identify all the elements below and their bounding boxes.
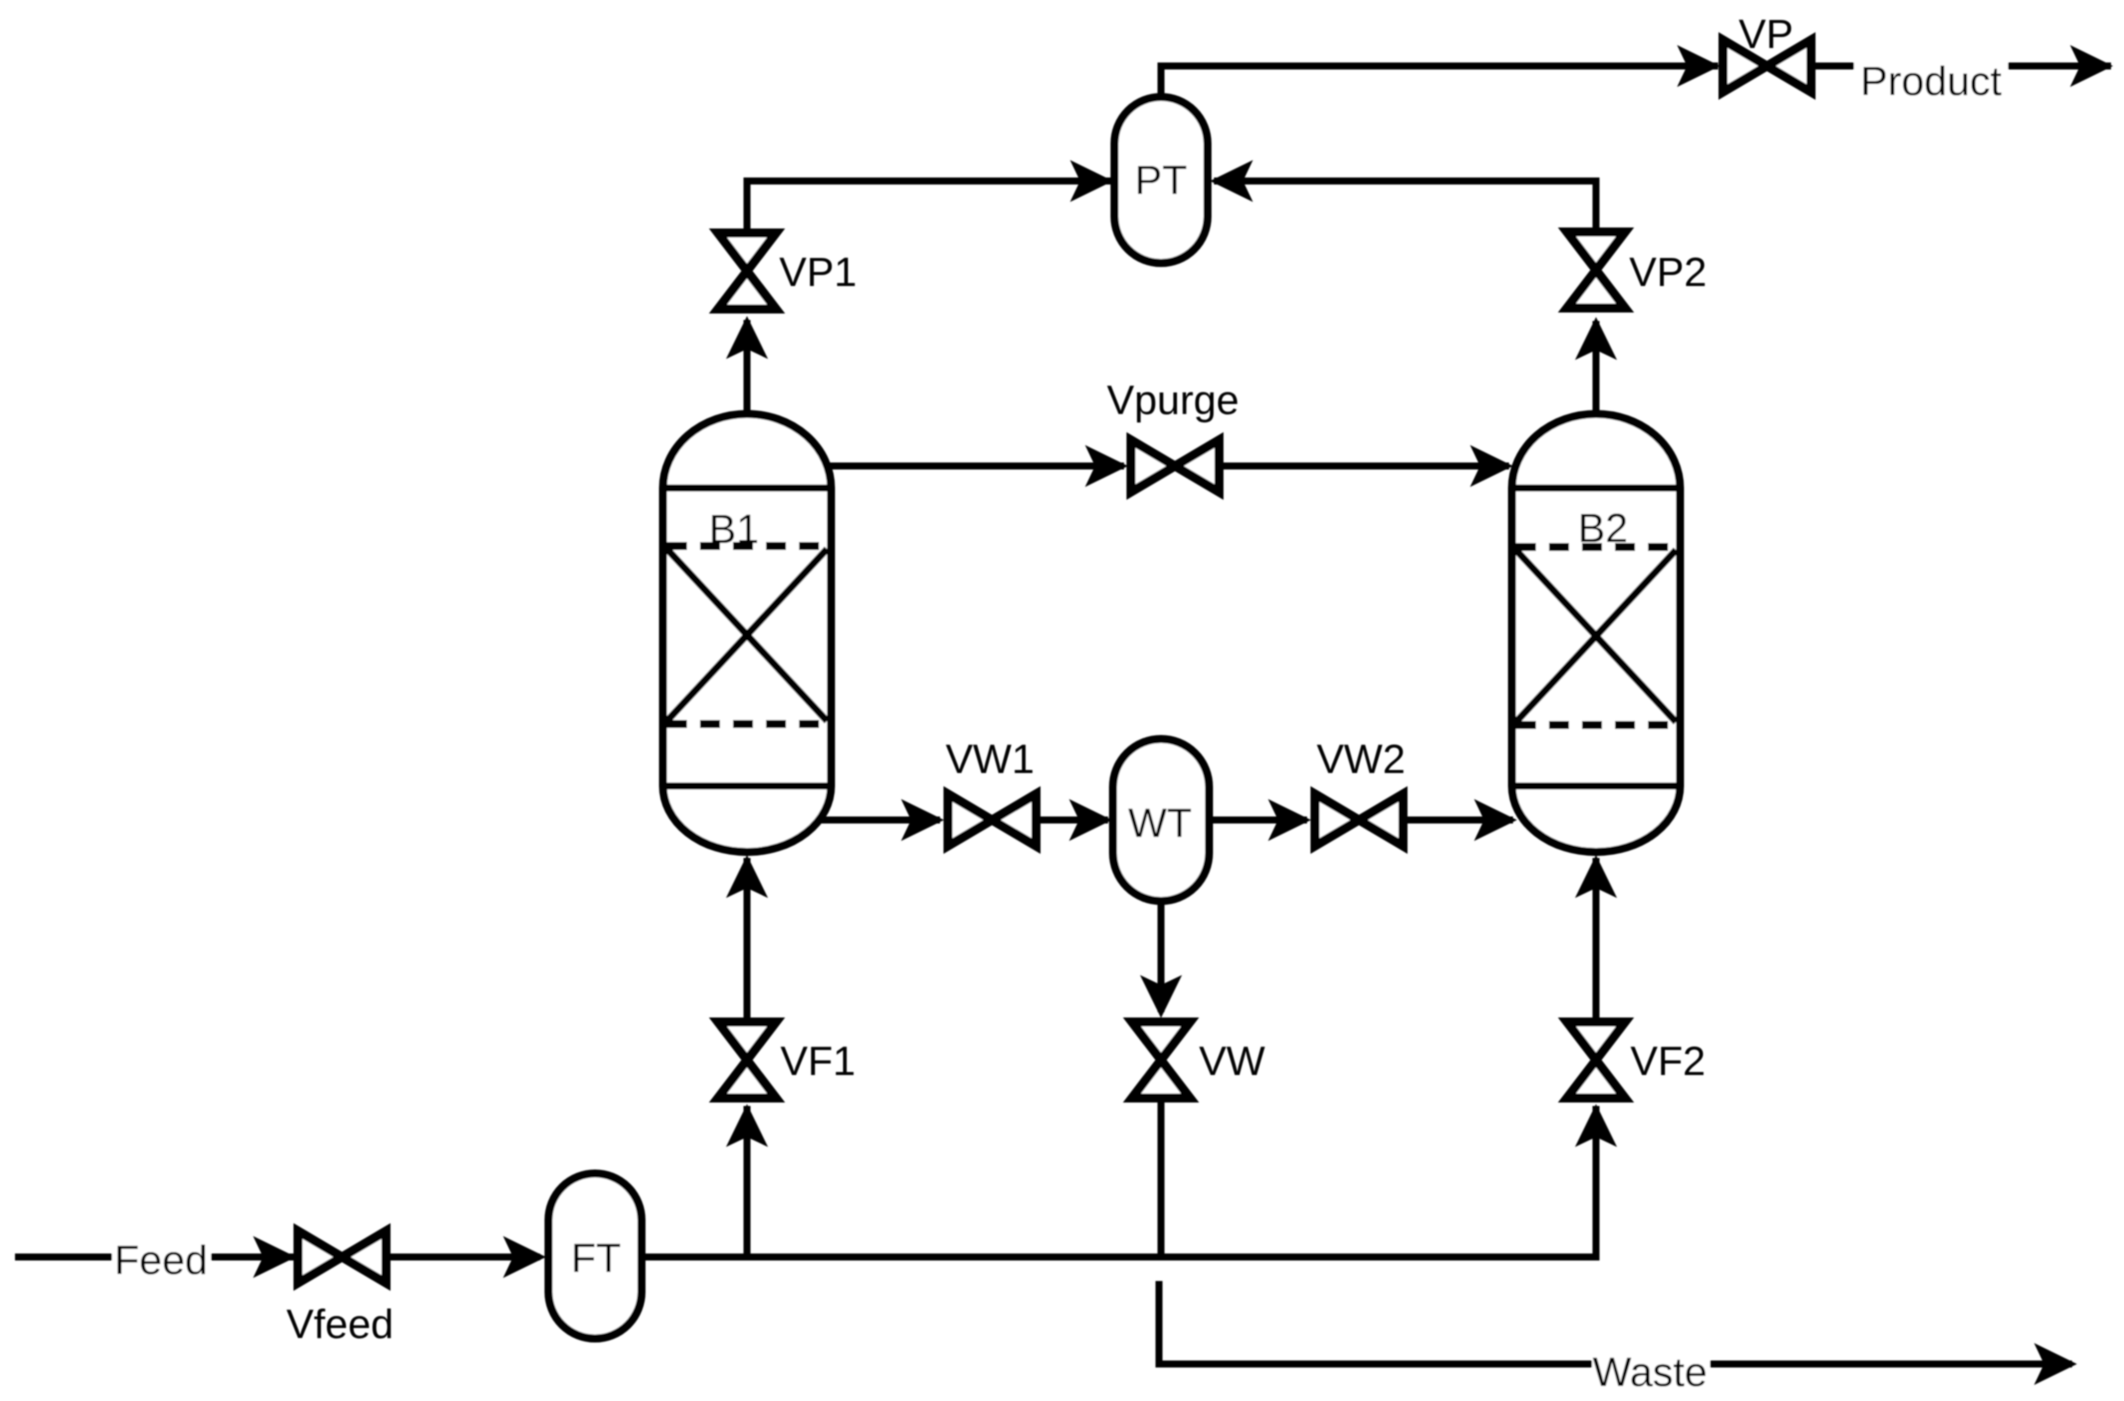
wire FT to feed elbow to VF2 xyxy=(642,1106,1597,1257)
svg-text:B2: B2 xyxy=(1578,505,1628,551)
wire VF2 to B2 xyxy=(1593,858,1600,1022)
arrow into B2 bottom-left xyxy=(1474,799,1517,841)
wire B1 top to VP1 xyxy=(744,320,751,414)
wire Vpurge to B2 xyxy=(1219,463,1509,470)
vessel B1 xyxy=(663,414,831,852)
arrow into WT xyxy=(1069,799,1112,841)
node: Waste label xyxy=(1592,1349,1710,1393)
svg-text:VP1: VP1 xyxy=(779,249,857,295)
tank FT xyxy=(549,1174,642,1339)
arrow Waste outlet xyxy=(2034,1343,2077,1385)
svg-text:VF1: VF1 xyxy=(780,1038,855,1084)
wire VP2 elbow to PT xyxy=(1214,181,1596,233)
arrow into Vfeed xyxy=(253,1236,296,1278)
wire B2 top to VP2 xyxy=(1593,321,1600,413)
arrow into PT left xyxy=(1070,160,1113,202)
valve VW xyxy=(1132,1022,1190,1098)
arrow into PT right xyxy=(1210,160,1253,202)
arrow into B2 left xyxy=(1470,445,1513,487)
wire: Feed inlet line xyxy=(15,1254,294,1261)
svg-text:B1: B1 xyxy=(709,506,759,552)
svg-text:Waste: Waste xyxy=(1593,1349,1708,1395)
svg-text:VW: VW xyxy=(1199,1038,1265,1084)
valve VF2 xyxy=(1567,1022,1625,1098)
node: Feed label xyxy=(112,1237,211,1281)
svg-text:VF2: VF2 xyxy=(1630,1038,1705,1084)
valve VP2 xyxy=(1567,232,1625,308)
svg-text:Vpurge: Vpurge xyxy=(1107,377,1239,423)
wire WT bottom to VW xyxy=(1158,901,1165,1012)
svg-text:PT: PT xyxy=(1135,157,1187,203)
vessel B2 xyxy=(1512,414,1680,852)
arrow into B1 bottom xyxy=(726,855,768,898)
wire VW1 to WT xyxy=(1036,817,1108,824)
wire VP1 to PT xyxy=(747,181,1111,234)
arrow into VF1 xyxy=(726,1104,768,1147)
wire B1 to VW1 xyxy=(819,817,940,824)
valve VW1 xyxy=(948,794,1036,846)
svg-text:Feed: Feed xyxy=(114,1237,207,1283)
arrow before Vpurge xyxy=(1085,445,1128,487)
svg-text:VP2: VP2 xyxy=(1629,249,1707,295)
arrow before VW2 xyxy=(1268,799,1311,841)
wire Vfeed to FT xyxy=(386,1254,540,1261)
valve VF1 xyxy=(718,1022,776,1098)
wire feed branch to VF1 xyxy=(744,1106,751,1257)
svg-text:Vfeed: Vfeed xyxy=(286,1301,393,1347)
wire WT to VW2 xyxy=(1209,817,1307,824)
valve VW2 xyxy=(1315,794,1403,846)
svg-text:VW1: VW1 xyxy=(946,736,1035,782)
valve VP xyxy=(1723,40,1811,92)
arrow into FT xyxy=(503,1236,546,1278)
wire Waste line xyxy=(1159,1281,2072,1364)
valve Vfeed xyxy=(298,1231,386,1283)
valve VP1 xyxy=(718,233,776,309)
node: Product label xyxy=(1854,57,2008,101)
tank WT xyxy=(1113,739,1209,901)
arrow Product outlet xyxy=(2070,45,2113,87)
arrow before VW1 xyxy=(901,799,944,841)
arrow into VP xyxy=(1677,45,1720,87)
wire VP to Product xyxy=(1811,63,2111,70)
wire VF1 to B1 xyxy=(744,858,751,1022)
tank PT xyxy=(1115,97,1208,263)
svg-text:VP: VP xyxy=(1739,11,1794,57)
svg-text:VW2: VW2 xyxy=(1317,736,1406,782)
wire PT top to VP xyxy=(1161,66,1718,97)
wire B1 to Vpurge xyxy=(824,463,1124,470)
wire VW2 to B2 xyxy=(1403,817,1513,824)
arrow into VW xyxy=(1140,975,1182,1018)
valve Vpurge xyxy=(1131,440,1219,492)
svg-text:WT: WT xyxy=(1128,800,1192,846)
arrow into VP1 xyxy=(726,316,768,359)
arrow into VP2 xyxy=(1575,317,1617,360)
svg-text:FT: FT xyxy=(571,1235,621,1281)
arrow into VF2 xyxy=(1575,1104,1617,1147)
arrow into B2 bottom xyxy=(1575,855,1617,898)
wire VW to feed line xyxy=(1158,1098,1165,1257)
svg-text:Product: Product xyxy=(1860,58,2002,104)
